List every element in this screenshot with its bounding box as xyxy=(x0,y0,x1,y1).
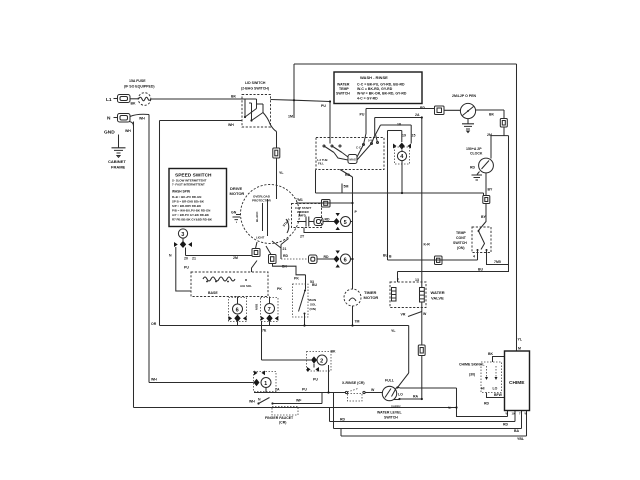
wire clock bottom down xyxy=(485,173,487,196)
chime signal dashed box xyxy=(481,362,502,393)
connector circle 1 xyxy=(261,378,271,388)
svg-text:CLOCK: CLOCK xyxy=(470,152,483,156)
outer right box top edge xyxy=(294,63,517,65)
wire RD line to open circle xyxy=(366,108,435,110)
svg-text:BU: BU xyxy=(383,254,389,258)
bottom frame wire xyxy=(134,407,457,409)
svg-text:PROTECTOR: PROTECTOR xyxy=(252,199,272,203)
wire right vertical BU long xyxy=(508,136,510,272)
svg-text:2M4-2P O PEN: 2M4-2P O PEN xyxy=(452,94,477,98)
wire connector to drive motor xyxy=(276,158,278,186)
connector box 3 on valve wire xyxy=(418,345,425,356)
ground symbol cabinet xyxy=(112,148,126,158)
wire row to diamond 2 xyxy=(262,359,312,361)
svg-text:7- FAST INTERMITTENT: 7- FAST INTERMITTENT xyxy=(172,183,205,187)
wire left leg down xyxy=(176,247,191,291)
dashed wire row to connector 6 xyxy=(281,258,309,260)
svg-text:18: 18 xyxy=(397,123,401,127)
svg-text:7M5: 7M5 xyxy=(494,260,501,264)
svg-text:(ON): (ON) xyxy=(457,246,465,250)
fuse F1 dashed circle xyxy=(138,93,151,106)
wire corner to chime pin1 xyxy=(457,388,508,417)
svg-text:WH: WH xyxy=(249,400,255,404)
wire diamond2 down xyxy=(313,364,315,368)
svg-text:MAIN: MAIN xyxy=(309,298,317,302)
svg-text:WH: WH xyxy=(139,117,145,121)
junction dot bus mainsol xyxy=(303,324,305,326)
connector box 8 xyxy=(273,148,280,158)
lid switch internal wire xyxy=(242,99,257,121)
svg-text:SP B = BR-GN5 BD+BK: SP B = BR-GN5 BD+BK xyxy=(172,200,205,204)
water level switch body xyxy=(382,386,396,400)
base dashed box xyxy=(191,272,268,297)
svg-text:BFW: BFW xyxy=(494,393,503,397)
svg-text:(2-BAG SWITCH): (2-BAG SWITCH) xyxy=(241,87,269,91)
wire 2T from cap box xyxy=(304,228,353,233)
junction dot BU line xyxy=(401,192,403,194)
junction dot row2 xyxy=(351,258,353,260)
svg-text:FRAME: FRAME xyxy=(111,165,126,170)
svg-text:MOTOR: MOTOR xyxy=(230,191,245,196)
connector 1 dashed outline xyxy=(254,372,277,392)
wire PU down to temp switch box xyxy=(329,102,331,138)
junction dot chime feed xyxy=(455,406,457,408)
svg-text:2MFD: 2MFD xyxy=(298,214,306,218)
motor winding strokes xyxy=(263,186,289,249)
svg-text:PK: PK xyxy=(277,287,282,291)
wire BU horizontal xyxy=(316,192,484,194)
svg-text:BK: BK xyxy=(231,95,237,99)
connector box on RD line xyxy=(435,106,445,115)
wire diag RD to motor line xyxy=(340,170,353,178)
cap start dashed box xyxy=(292,204,322,228)
svg-text:BK: BK xyxy=(131,102,137,106)
connector 4 dashed outline xyxy=(395,147,410,164)
base contacts xyxy=(206,279,247,282)
main sol switch arm xyxy=(293,284,309,317)
junction diamond under 3 xyxy=(180,238,186,248)
motor plug box 1 xyxy=(252,249,260,257)
svg-text:AGI SOL: AGI SOL xyxy=(240,284,252,288)
wire WF up to xrinse line xyxy=(321,393,323,404)
junction diamond under 6 xyxy=(234,315,240,323)
base coil winding xyxy=(203,277,235,281)
faucet contact 2 xyxy=(271,402,273,404)
svg-text:YBL: YBL xyxy=(517,437,525,441)
svg-text:5M: 5M xyxy=(344,185,349,189)
chime pin wire 3 xyxy=(521,411,523,429)
connector box GN on row xyxy=(309,255,318,264)
wire full contact right xyxy=(400,387,457,389)
svg-text:S/P = BR-OR5 RD-BK: S/P = BR-OR5 RD-BK xyxy=(172,204,202,208)
svg-text:SWITCH: SWITCH xyxy=(453,241,467,245)
svg-text:HI: HI xyxy=(481,387,485,391)
connector box BA xyxy=(500,119,507,128)
wire GY nested xyxy=(375,117,422,119)
svg-text:53: 53 xyxy=(310,280,314,284)
wire connector 4 down xyxy=(401,150,403,194)
svg-text:RD: RD xyxy=(324,255,330,259)
wire corner down to main sol xyxy=(305,275,307,290)
svg-text:RD: RD xyxy=(345,173,351,177)
svg-text:7: 7 xyxy=(268,307,271,313)
svg-text:BK: BK xyxy=(488,352,494,356)
svg-text:2A: 2A xyxy=(415,113,420,117)
wire lid to motor vertical xyxy=(276,132,278,149)
svg-text:WF: WF xyxy=(296,399,302,403)
junction triangles 6r xyxy=(336,251,340,268)
wire corner down to connector xyxy=(503,110,505,119)
lid switch contact 1 xyxy=(244,99,257,118)
second left vertical WH xyxy=(148,115,150,383)
svg-text:7: 7 xyxy=(397,278,399,282)
junction dot bus timer xyxy=(351,324,353,326)
wire 6 to bus xyxy=(237,322,239,326)
svg-text:TEMP: TEMP xyxy=(456,231,466,235)
svg-text:(ON): (ON) xyxy=(310,307,317,311)
xrinse dashed box xyxy=(348,394,363,402)
wire to junction 5 xyxy=(323,221,334,223)
svg-text:WH: WH xyxy=(228,123,234,127)
valve bottom diagonal wire xyxy=(408,312,422,317)
junction diamond under 7 xyxy=(266,315,272,323)
wire 1 down to xrinse line xyxy=(265,388,267,393)
svg-text:13: 13 xyxy=(415,278,419,282)
svg-text:WASH SPIN: WASH SPIN xyxy=(172,190,191,194)
junction dot xrinse drop xyxy=(327,391,329,393)
svg-text:X-RINSE (CR): X-RINSE (CR) xyxy=(342,381,365,385)
svg-text:15A FUSE: 15A FUSE xyxy=(129,79,146,83)
motor plug box 2 xyxy=(269,255,277,264)
wire long vertical to BU line xyxy=(387,131,389,261)
svg-text:GN: GN xyxy=(231,211,237,215)
svg-text:1M: 1M xyxy=(288,115,293,119)
speed switch legend box xyxy=(169,169,227,227)
left outer vertical WH xyxy=(133,122,135,408)
svg-text:21: 21 xyxy=(283,247,287,251)
svg-text:SWITCH: SWITCH xyxy=(384,416,398,420)
chime pin wire 4 xyxy=(526,411,528,437)
svg-text:15: 15 xyxy=(412,134,416,138)
svg-text:3: 3 xyxy=(181,232,184,238)
svg-text:LO: LO xyxy=(398,393,403,397)
junction triangles under 6 xyxy=(229,316,247,321)
wire BU lower row xyxy=(398,271,509,273)
wire faucet to WF xyxy=(273,403,323,405)
svg-text:VALVE: VALVE xyxy=(431,296,444,301)
faucet switch arm xyxy=(259,398,270,404)
svg-text:WATER LEVEL: WATER LEVEL xyxy=(377,411,402,415)
svg-text:2A: 2A xyxy=(275,388,280,392)
connector circle 7 xyxy=(265,304,275,314)
svg-text:PU: PU xyxy=(360,113,365,117)
valve solenoid right xyxy=(420,288,425,303)
wire GND down xyxy=(118,135,120,148)
wire temp cont to BU line xyxy=(477,250,479,260)
connector circle 2 xyxy=(317,355,327,365)
svg-text:BK: BK xyxy=(331,350,337,354)
svg-text:L1: L1 xyxy=(106,97,112,103)
wire 2 down to xrinse line xyxy=(328,365,330,393)
lid switch contact 2 xyxy=(250,104,263,122)
junction dot GY valve wire xyxy=(421,116,423,118)
svg-text:WH: WH xyxy=(151,378,157,382)
wire down to diamond 4 xyxy=(401,131,403,143)
svg-text:R+B = BK+PU RD-GN: R+B = BK+PU RD-GN xyxy=(172,195,201,199)
junction triangles under 7 xyxy=(261,316,279,321)
motor ground stub GN xyxy=(231,211,241,223)
svg-text:6: 6 xyxy=(236,308,239,314)
svg-text:4-C = GY-RD: 4-C = GY-RD xyxy=(357,97,378,101)
wire 6 to base box xyxy=(237,297,239,305)
wire stub top right of motor xyxy=(341,184,343,194)
svg-text:BLACK: BLACK xyxy=(255,211,259,222)
bottom bus 2 left tick xyxy=(333,393,335,429)
svg-text:21: 21 xyxy=(192,257,196,261)
junction triangles 5 xyxy=(336,213,340,230)
junction dot lid wire xyxy=(293,99,295,101)
chime pin wire 1 xyxy=(507,411,509,417)
wire circle to corner xyxy=(444,109,504,111)
wire corner down xyxy=(372,118,375,144)
svg-text:19: 19 xyxy=(512,412,515,416)
svg-text:P/B = WH-BU,PU-BK RD-GN: P/B = WH-BU,PU-BK RD-GN xyxy=(172,209,210,213)
wire row to diamond 6 xyxy=(317,258,334,260)
svg-text:WASH - RINSE: WASH - RINSE xyxy=(360,75,388,80)
svg-text:BU: BU xyxy=(478,268,484,272)
svg-text:RD: RD xyxy=(340,418,346,422)
svg-text:W-C = BK-RD, GY-RD: W-C = BK-RD, GY-RD xyxy=(357,87,393,91)
svg-text:(IF SO EQUIPPED): (IF SO EQUIPPED) xyxy=(124,85,155,89)
svg-text:MOTOR: MOTOR xyxy=(364,295,379,300)
connector box on BU row xyxy=(435,256,443,265)
wire 7 to bus xyxy=(269,322,271,326)
xrinse switch arm xyxy=(348,389,359,393)
bottom bus left tick xyxy=(329,408,331,422)
connector circle 3 xyxy=(178,229,187,238)
inner box top edge xyxy=(160,120,242,122)
wire temp cont right leg xyxy=(487,250,509,265)
ground under clock xyxy=(472,172,483,181)
temp cont contact bottom right xyxy=(486,249,488,251)
bottom bus RD xyxy=(330,421,516,423)
wire to clock loop xyxy=(503,127,505,136)
wire chime signal bottom to chime xyxy=(487,393,505,398)
svg-text:SUPPY: SUPPY xyxy=(391,405,401,409)
wire lid switch to PU corner xyxy=(271,100,331,102)
chime signal arrow 1 xyxy=(485,366,488,380)
wire nested C xyxy=(381,124,412,126)
wire N to left vertical xyxy=(129,122,134,127)
wire valve to water level lo xyxy=(421,356,423,400)
svg-text:4: 4 xyxy=(473,255,475,259)
wire nested D xyxy=(388,130,402,132)
svg-text:(CR): (CR) xyxy=(279,421,286,425)
svg-text:BY: BY xyxy=(481,215,487,219)
svg-text:LIGHT: LIGHT xyxy=(256,236,265,240)
open solenoid circle 2M4 xyxy=(460,103,475,118)
junction triangles under 2 xyxy=(307,367,319,372)
wire from temp box bottom xyxy=(315,170,317,194)
connector circle 6 xyxy=(233,304,243,314)
connector 2 dashed outline xyxy=(307,352,332,372)
wash-rinse table box xyxy=(334,72,422,104)
svg-text:WATER: WATER xyxy=(337,83,350,87)
lid switch dashed box xyxy=(242,95,271,128)
svg-text:FINGER FAUCET: FINGER FAUCET xyxy=(265,416,294,420)
svg-text:N: N xyxy=(107,116,111,122)
svg-text:RD: RD xyxy=(325,218,331,222)
wire lo to valve vertical xyxy=(400,398,422,400)
wire valve vertical long xyxy=(421,118,423,346)
wire plug1 down diagonal xyxy=(252,261,258,273)
junction triangle left xyxy=(174,242,178,247)
svg-text:2: 2 xyxy=(320,359,323,365)
svg-text:20: 20 xyxy=(184,257,188,261)
bus WH to connector 1 xyxy=(149,382,254,384)
svg-text:PK: PK xyxy=(294,277,299,281)
connector box on 7M1 xyxy=(322,200,331,208)
svg-text:BK: BK xyxy=(489,113,495,117)
svg-text:MAG: MAG xyxy=(350,158,357,162)
wire corner down to valve pin xyxy=(397,272,399,283)
clock loop horizontal xyxy=(491,135,509,137)
temp cont contact top xyxy=(478,230,480,232)
svg-text:PU: PU xyxy=(321,104,326,108)
water temp switch dashed box xyxy=(316,138,384,170)
wire main vertical through timer xyxy=(352,177,354,326)
svg-text:CABINET: CABINET xyxy=(108,159,126,164)
wire xrinse long line xyxy=(254,392,346,394)
svg-text:19: 19 xyxy=(402,134,406,138)
wire corner diag xyxy=(376,125,381,143)
svg-text:K-R: K-R xyxy=(424,243,431,247)
svg-text:C-C = BK-PU, GY-RD, BU-RD: C-C = BK-PU, GY-RD, BU-RD xyxy=(357,83,405,87)
outer right box right edge xyxy=(516,64,518,351)
svg-text:RD: RD xyxy=(484,402,490,406)
svg-text:CHIME: CHIME xyxy=(509,380,525,386)
junction dot water level full xyxy=(421,398,423,400)
wire to water level xyxy=(365,392,383,394)
faucet dashed box xyxy=(272,407,298,416)
junction triangle left xyxy=(393,144,397,149)
svg-text:BASE: BASE xyxy=(208,291,218,295)
junction diamond 2 xyxy=(311,356,317,363)
timer motor circle xyxy=(344,289,361,306)
svg-text:RD: RD xyxy=(503,423,509,427)
svg-text:RD: RD xyxy=(283,254,289,258)
connector box on clock wire xyxy=(483,196,490,204)
wire 6 to vertical xyxy=(351,258,353,260)
temp switch contacts left xyxy=(323,138,342,153)
wire diagonal into water level switch xyxy=(398,373,409,388)
svg-text:SOL: SOL xyxy=(310,303,316,307)
svg-text:W-W = BK-OR, BK-RD, GY-RD: W-W = BK-OR, BK-RD, GY-RD xyxy=(357,92,407,96)
connector circle 4 xyxy=(397,151,406,160)
wire 5 to vertical xyxy=(351,221,353,223)
xrinse contact 2 xyxy=(363,391,365,393)
wire N to right vertical xyxy=(130,114,149,116)
faucet contact N xyxy=(257,398,261,405)
temp cont switch dashed box xyxy=(472,227,491,253)
terminal L1 xyxy=(114,95,131,103)
connector 6 dashed outline xyxy=(229,298,247,322)
wire corner down to contact xyxy=(364,109,367,145)
wire vertical from lid switch junction to top edge xyxy=(293,64,295,118)
ground under 2M4 xyxy=(462,119,474,133)
svg-text:7M: 7M xyxy=(355,320,360,324)
connector oval on cap line xyxy=(314,218,323,226)
svg-text:5: 5 xyxy=(344,220,347,226)
wire into clock xyxy=(490,136,492,159)
junction diamond 4 xyxy=(399,143,405,150)
wire 7M1 motor to right xyxy=(297,202,353,204)
svg-text:BY: BY xyxy=(488,188,494,192)
connector circle 6r xyxy=(341,254,351,264)
svg-text:M5B: M5B xyxy=(255,303,259,310)
wire mid leg down xyxy=(185,248,187,256)
svg-text:2M: 2M xyxy=(233,256,238,260)
terminal N xyxy=(114,114,131,123)
svg-text:6: 6 xyxy=(344,258,347,264)
svg-text:GND: GND xyxy=(104,130,115,136)
svg-text:LID SWITCH: LID SWITCH xyxy=(245,81,266,85)
svg-text:FILL: FILL xyxy=(318,162,324,166)
chime box xyxy=(505,351,530,411)
svg-text:LO: LO xyxy=(493,387,498,391)
svg-text:BA: BA xyxy=(514,429,520,433)
svg-text:A/7 = BR-PU GY-BK RD-BK: A/7 = BR-PU GY-BK RD-BK xyxy=(172,213,210,217)
svg-text:7M1: 7M1 xyxy=(296,198,303,202)
wire 20 to motor plug xyxy=(186,255,253,257)
junction triangle right xyxy=(188,242,192,247)
water level full contact xyxy=(396,386,399,388)
wire mag to contacts xyxy=(334,153,348,161)
valve solenoid left xyxy=(392,288,397,302)
junction diamond 5 xyxy=(334,218,340,225)
wire 7 to base box xyxy=(269,297,271,304)
wire right down to triangle xyxy=(410,125,412,144)
svg-text:RD: RD xyxy=(470,166,476,170)
svg-text:FULL: FULL xyxy=(385,379,395,383)
svg-text:CONT: CONT xyxy=(456,236,467,240)
svg-text:1: 1 xyxy=(264,381,267,387)
svg-text:(30): (30) xyxy=(469,373,475,377)
wire to temp cont switch xyxy=(479,204,487,231)
wire BU horizontal row xyxy=(388,259,478,261)
svg-text:C-C: C-C xyxy=(356,146,361,150)
junction dot PU corner xyxy=(329,100,331,102)
lid switch exit wire down xyxy=(263,113,277,132)
junction triangle right xyxy=(408,144,412,149)
wire chime signal top to chime xyxy=(493,357,505,363)
svg-text:OR: OR xyxy=(151,322,157,326)
svg-text:7E: 7E xyxy=(262,329,267,333)
svg-text:PU: PU xyxy=(302,388,307,392)
junction triangles above 1 xyxy=(254,371,265,376)
chime signal arrow 2 xyxy=(495,366,498,380)
wire motor to plug1 xyxy=(256,242,258,249)
junction dot 7M1 xyxy=(351,202,353,204)
wire elbow into clock connector xyxy=(483,193,485,196)
inner box left edge xyxy=(159,121,161,326)
bottom bus 3 left tick xyxy=(340,429,342,437)
capacitor C1 xyxy=(297,217,314,227)
xrinse contact 1 xyxy=(345,391,347,393)
bottom bus 2 xyxy=(334,428,522,430)
junction diamond 6r xyxy=(334,256,340,263)
mag coil box xyxy=(348,155,357,164)
